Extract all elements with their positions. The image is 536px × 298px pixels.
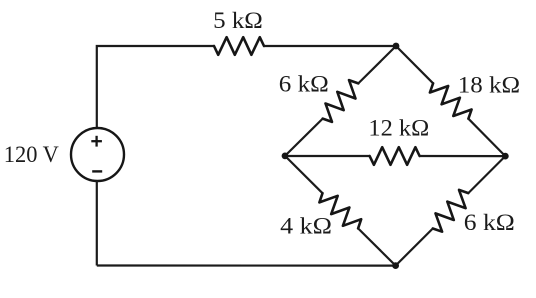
node A junction dot: [393, 43, 400, 50]
node B junction dot: [282, 153, 289, 160]
resistor 4 kohm zigzag: [319, 193, 361, 228]
resistor 12 kohm zigzag: [370, 147, 420, 165]
svg-text:6 kΩ: 6 kΩ: [464, 210, 515, 235]
wire: node B down-right to 4 kohm resistor: [285, 156, 323, 193]
wire: node C down-left to 6 kohm bottom resistor: [468, 156, 505, 193]
wire: 6 kohm bottom resistor to node D: [396, 229, 433, 266]
wire: 6 kohm resistor to node A: [358, 46, 396, 83]
wire: 18 kohm resistor to node C: [468, 119, 505, 156]
resistor 6 kohm top-left zigzag: [323, 80, 359, 122]
wire: node B up-right to 6 kohm resistor: [285, 119, 323, 156]
svg-text:12 kΩ: 12 kΩ: [368, 116, 429, 141]
resistor 5 kohm zigzag: [214, 37, 264, 55]
node D junction dot: [392, 262, 399, 269]
wire: source bottom down to bottom-left corner: [96, 181, 98, 266]
wire: node A down-right to 18 kohm resistor: [396, 46, 433, 83]
wire: 12 kohm resistor to node C: [420, 155, 506, 157]
voltage source V1 circle: [71, 128, 124, 181]
source plus sign: [95, 136, 97, 147]
resistor 6 kohm bottom-right zigzag: [433, 190, 469, 232]
wire: top rail from resistor R1 left end to top-left corner, down to source top: [97, 46, 214, 129]
resistor 18 kohm zigzag: [430, 83, 472, 118]
source minus sign: [92, 170, 102, 172]
wire: node B to 12 kohm resistor: [285, 155, 370, 157]
wire: 4 kohm resistor to node D: [358, 228, 396, 265]
svg-text:120 V: 120 V: [4, 142, 59, 167]
svg-text:5 kΩ: 5 kΩ: [213, 8, 263, 33]
wire: bottom rail to node D: [97, 264, 396, 266]
svg-text:6 kΩ: 6 kΩ: [279, 72, 329, 97]
svg-text:4 kΩ: 4 kΩ: [280, 213, 332, 238]
node C junction dot: [502, 153, 509, 160]
wire: top rail right segment to node A: [264, 45, 396, 47]
svg-text:18 kΩ: 18 kΩ: [458, 72, 520, 97]
